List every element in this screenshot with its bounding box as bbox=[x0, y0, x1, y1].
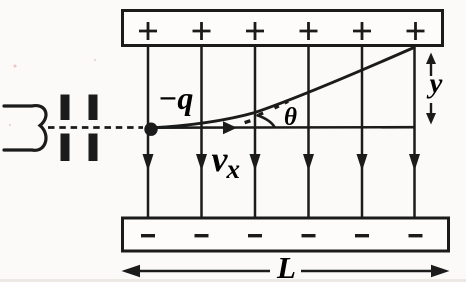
svg-text:y: y bbox=[427, 68, 443, 100]
svg-text:x: x bbox=[226, 154, 241, 184]
svg-text:−q: −q bbox=[158, 80, 193, 116]
svg-text:L: L bbox=[276, 250, 296, 282]
svg-text:θ: θ bbox=[284, 104, 297, 131]
